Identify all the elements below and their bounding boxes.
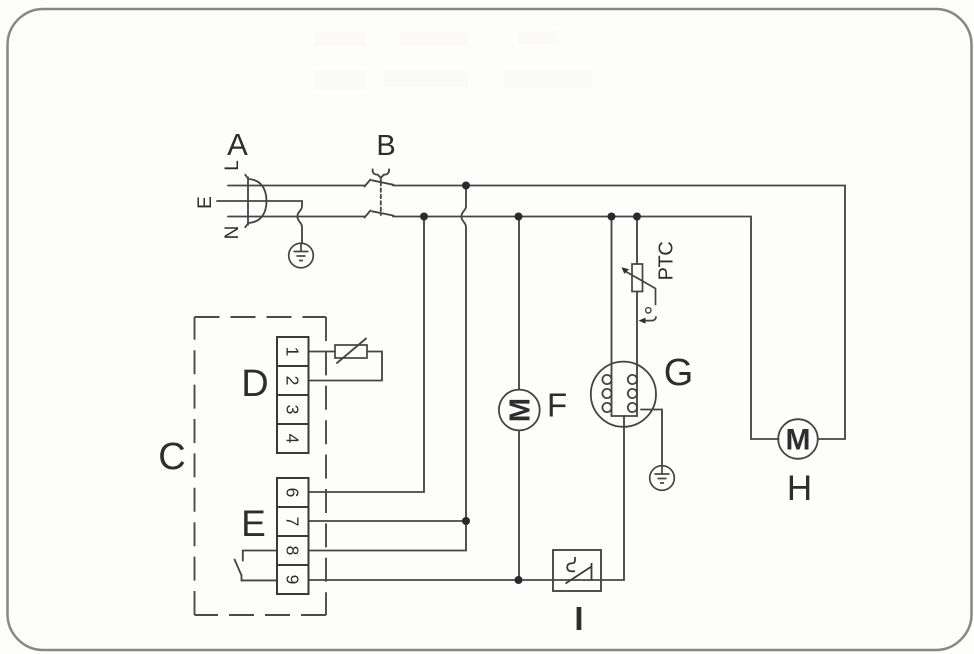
PTC starter <box>624 264 656 321</box>
terminal block E <box>277 478 309 594</box>
node on N line to motor F <box>515 213 523 221</box>
compressor winding bottom bar <box>612 415 638 417</box>
svg-text:G: G <box>664 352 694 394</box>
compressor case tap to earth <box>641 410 662 466</box>
svg-text:E: E <box>241 503 266 544</box>
switch B mechanical link (dashed) <box>380 182 382 215</box>
terminal block D <box>277 337 309 453</box>
node on N line to compressor <box>608 213 616 221</box>
wire compressor main winding drop <box>611 217 613 417</box>
motor F <box>499 390 540 431</box>
wire vertical from L line to terminals 7,8 with hop over N <box>309 186 467 551</box>
wire L line from B to right, down to motor H right <box>393 186 845 440</box>
wire L top line: plug to switch B top fixed contact <box>228 185 365 187</box>
wire motor F bottom <box>518 430 520 580</box>
switch B bottom contact tick <box>365 211 371 218</box>
earth symbol below plug <box>289 243 314 268</box>
svg-text:7: 7 <box>283 517 303 527</box>
svg-text:M: M <box>786 424 811 457</box>
svg-text:PTC: PTC <box>656 242 678 281</box>
thermistor strike line <box>337 339 366 364</box>
node wire9 / motor F junction <box>515 576 523 584</box>
dashed box C <box>195 317 327 615</box>
switch B top contact tick <box>365 180 371 187</box>
thermal switch box I <box>553 550 601 591</box>
compressor main winding coil <box>602 375 611 384</box>
wire N line from B to right, down to motor H left <box>393 217 779 440</box>
wire terminal 9 to switch I and up to compressor <box>309 416 625 580</box>
wire door switch in box C: terminal 8 stub <box>243 551 277 561</box>
svg-text:C: C <box>158 436 185 478</box>
thermistor return wire to terminal 2 <box>309 352 383 381</box>
wire N line: plug to switch B bottom fixed contact <box>228 216 365 218</box>
svg-text:2: 2 <box>283 376 303 386</box>
switch B actuator <box>373 169 378 174</box>
junction dots <box>420 182 641 585</box>
svg-text:E: E <box>195 196 216 209</box>
thermal switch symbol inside I <box>566 557 592 584</box>
svg-text:I: I <box>574 600 583 637</box>
plug A body <box>245 174 267 228</box>
compressor G case circle <box>591 362 656 427</box>
node wire7 junction <box>462 517 470 525</box>
wire terminal 1 to thermistor <box>309 351 336 353</box>
wire PTC drop lower into compressor <box>636 292 638 417</box>
faint smudges <box>315 31 592 90</box>
node on N line to PTC <box>633 213 641 221</box>
door switch wire to terminal 9 <box>242 575 278 580</box>
wire motor F top <box>518 217 520 390</box>
svg-text:N: N <box>222 226 243 240</box>
svg-text:F: F <box>547 387 567 424</box>
wire PTC drop upper <box>636 217 638 265</box>
svg-text:9: 9 <box>283 575 303 585</box>
motor H <box>778 419 818 459</box>
switch B top blade <box>372 180 394 185</box>
node on L line at x=466 <box>462 182 470 190</box>
svg-text:A: A <box>227 127 248 162</box>
wire E prong to earth, hop over N <box>217 201 302 243</box>
svg-text:1: 1 <box>283 347 303 357</box>
svg-text:4: 4 <box>283 434 303 444</box>
switch B bottom blade <box>372 211 394 215</box>
wire terminal 6 up to N line <box>309 217 425 493</box>
thermistor body <box>335 345 367 358</box>
svg-text:B: B <box>376 130 395 162</box>
svg-text:D: D <box>241 363 268 405</box>
svg-text:L: L <box>222 160 243 171</box>
compressor start winding coil <box>628 375 637 384</box>
door switch blade <box>235 560 242 576</box>
svg-text:H: H <box>787 469 812 508</box>
svg-text:3: 3 <box>283 405 303 415</box>
svg-text:6: 6 <box>283 488 303 498</box>
earth symbol below compressor <box>650 466 675 491</box>
svg-text:M: M <box>504 398 536 422</box>
node on N line to terminal 6 <box>420 213 428 221</box>
svg-text:8: 8 <box>283 546 303 556</box>
PTC strike arrowhead <box>622 267 630 274</box>
thermal contact arrowhead <box>639 318 646 324</box>
wire terminal 7 <box>309 520 467 522</box>
